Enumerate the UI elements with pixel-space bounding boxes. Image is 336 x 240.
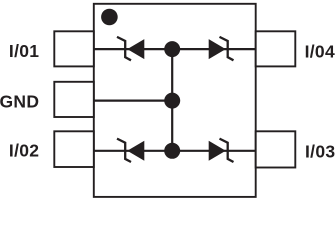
node GND junction — [164, 93, 180, 109]
pin 1 indicator dot — [101, 9, 118, 26]
pad pin I/01 — [54, 31, 94, 66]
svg-text:I/02: I/02 — [9, 140, 39, 160]
pad pin I/02 — [54, 131, 94, 167]
diode D1 (I/01 to node A) — [117, 37, 144, 60]
pad pin I/03 — [256, 131, 296, 167]
node A junction — [164, 41, 180, 57]
diode D4 (node A to I/04) — [209, 37, 234, 60]
pad pin GND — [54, 82, 94, 117]
svg-text:I/04: I/04 — [305, 41, 335, 61]
wire GND row — [94, 99, 172, 101]
wire I/02 row — [94, 150, 256, 152]
wire center trunk — [171, 49, 173, 151]
diode D3 (node B to I/03) — [209, 139, 234, 162]
svg-text:GND: GND — [0, 92, 39, 112]
svg-text:I/01: I/01 — [9, 41, 39, 61]
pad pin I/04 — [256, 31, 296, 66]
package outline U1 — [94, 4, 256, 197]
svg-text:I/03: I/03 — [305, 142, 335, 162]
diode D2 (I/02 to node B) — [117, 139, 144, 162]
wire I/01 row — [94, 48, 256, 50]
node B junction — [164, 143, 180, 159]
